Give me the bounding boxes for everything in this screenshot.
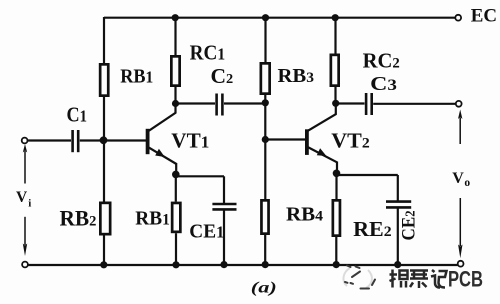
svg-text:C1: C1 [67, 103, 88, 127]
svg-text:PCB: PCB [448, 267, 483, 292]
svg-text:RC1: RC1 [190, 41, 226, 65]
svg-text:VT1: VT1 [171, 129, 209, 153]
svg-text:C3: C3 [370, 73, 397, 95]
svg-text:CE1: CE1 [189, 220, 224, 242]
svg-text:(a): (a) [251, 280, 277, 297]
svg-text:EC: EC [471, 5, 497, 26]
svg-text:RB1: RB1 [120, 66, 153, 88]
svg-text:RB1: RB1 [135, 208, 170, 230]
